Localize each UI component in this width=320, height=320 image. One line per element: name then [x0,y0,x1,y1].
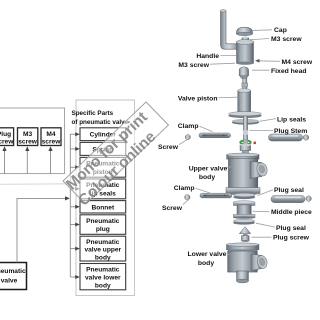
label Plug screw [252,235,310,242]
svg-text:Cap: Cap [274,27,287,34]
svg-text:Upper valve: Upper valve [189,165,228,172]
box Pneumatic plug [80,215,126,235]
wire arrow to Spring [70,147,80,151]
cylinder block (actuator) [237,40,254,65]
box Pneumatic valve (root) [0,263,27,290]
svg-text:M3 screw: M3 screw [271,36,302,43]
plug seal bar right [271,196,311,203]
svg-text:Pneumatic: Pneumatic [86,218,120,225]
cap [237,27,253,35]
wire arrow to Bonnet [70,205,80,209]
label Plug seal (upper) [258,187,304,195]
svg-text:Plug: Plug [0,131,11,138]
svg-text:Pneumatic: Pneumatic [86,266,120,273]
green o-ring [240,141,250,145]
lower body side port [251,254,269,271]
outer group box of screws [0,108,65,174]
collar below o-ring [240,144,251,151]
clamp lower bar [200,193,232,198]
svg-text:Clamp: Clamp [174,185,195,192]
svg-text:body: body [95,282,111,289]
box Cylinder [80,128,126,141]
label Plug seal (lower) [256,223,306,232]
box Pneumatic piston [80,157,126,177]
label Clamp (lower) [174,185,212,194]
upper valve body main [229,158,258,189]
svg-text:Middle piece: Middle piece [271,209,312,216]
wire up-arrow to Plug screw [2,146,6,173]
label M3 screw (left) [178,62,235,69]
svg-text:Screw: Screw [162,205,183,212]
label Clamp (upper) [178,123,213,132]
svg-text:Pneumatic: Pneumatic [0,268,26,275]
screw ball upper [185,135,190,140]
box M4 screw [41,128,61,146]
wire up-arrow to M4 screw [48,146,52,173]
svg-text:body: body [95,254,111,261]
svg-text:Lower valve: Lower valve [188,251,227,258]
svg-text:Fixed head: Fixed head [271,68,307,75]
middle piece block [237,205,251,215]
plug screw part [239,227,250,242]
plug seal lower disc [233,219,254,224]
svg-text:M3: M3 [23,131,32,138]
wire arrow to Pneumatic lip seals [70,187,80,191]
svg-text:of pneumatic valve: of pneumatic valve [72,119,129,126]
rod over o-ring [244,140,248,145]
plug seal disc (under body) [234,193,256,199]
label Valve piston [178,95,239,102]
svg-text:M3 screw: M3 screw [178,62,209,69]
svg-text:screw: screw [0,139,14,146]
svg-text:M4: M4 [46,131,55,138]
wire arrow to Pneumatic piston [70,165,80,169]
label Fixed head [252,68,307,75]
wire arrow to Cylinder [70,132,80,136]
label Lower valve body [188,251,231,267]
middle piece top disc [233,201,255,206]
wire from Pneumatic valve up [16,198,18,262]
wire arrow to Pneumatic plug [70,223,80,227]
label Lip seals [260,116,307,123]
label M4 screw [255,59,313,66]
faint rule artifact [0,183,92,186]
svg-text:Plug seal: Plug seal [274,187,304,194]
svg-text:Specific Parts: Specific Parts [72,110,114,117]
plug stem rod (center) [243,116,248,152]
svg-text:M4 screw: M4 screw [282,59,313,66]
label Plug Stem [250,128,308,135]
svg-text:Handle: Handle [196,53,219,60]
svg-text:plug: plug [96,226,110,233]
middle piece bottom disc [233,214,255,218]
upper body bottom flange [226,188,260,196]
svg-text:screw: screw [18,139,38,146]
box Bonnet [80,201,126,213]
label Cap [253,27,287,34]
clamp upper bar [199,133,231,138]
svg-text:Pneumatic: Pneumatic [86,239,120,246]
svg-text:body: body [198,260,214,267]
upper valve body top flange [227,153,259,159]
handle pipe (L shape) [220,10,240,50]
svg-text:Plug Stem: Plug Stem [274,128,307,135]
upper body side port [250,161,269,178]
box Pneumatic valve upper body [80,236,126,261]
rod stub to upper body [242,151,248,155]
wire horizontal to trunk with arrow [17,196,70,200]
svg-text:Clamp: Clamp [178,123,199,130]
svg-text:valve upper: valve upper [84,247,121,254]
svg-text:valve lower: valve lower [85,274,121,281]
svg-text:Screw: Screw [158,144,179,151]
lip seal 1 [229,112,262,118]
lower valve body top flange [227,243,259,252]
label Middle piece [253,209,313,216]
label Upper valve body [189,165,236,181]
svg-text:body: body [199,174,215,181]
wire arrow to lower body box [70,275,80,279]
svg-text:Plug seal: Plug seal [276,225,306,232]
watermark band [63,102,169,204]
label Screw (upper) [158,140,187,151]
box Spring [80,142,126,155]
svg-text:Plug screw: Plug screw [273,235,310,242]
svg-text:valve: valve [1,278,18,285]
lower body bottom pipe [237,271,249,283]
heading Specific Parts of pneumatic valve [72,110,129,126]
M3 screw part (below cap) [242,37,249,43]
lower valve body main [228,251,258,272]
lip seal 2 [232,119,259,125]
box Plug screw [0,128,14,146]
column rectangle [76,100,135,296]
box M3 screw [18,128,38,146]
svg-text:Valve piston: Valve piston [178,95,218,102]
plug stem bar right [269,134,309,141]
svg-text:Bonnet: Bonnet [91,204,115,211]
box Pneumatic lip seals [80,179,126,199]
label M3 screw (top) [249,36,302,43]
box Pneumatic valve lower body [80,264,126,290]
wire up-arrow to M3 screw [25,146,29,173]
label Screw (lower) [162,200,188,212]
fixed head [239,67,248,78]
red mark [254,142,256,145]
valve piston [238,78,251,111]
screw ball lower [185,195,190,200]
trunk vertical line [69,134,71,277]
label Handle [196,53,236,60]
svg-text:screw: screw [42,139,62,146]
svg-text:Lip seals: Lip seals [277,116,306,123]
wire arrow to upper body box [70,247,80,251]
